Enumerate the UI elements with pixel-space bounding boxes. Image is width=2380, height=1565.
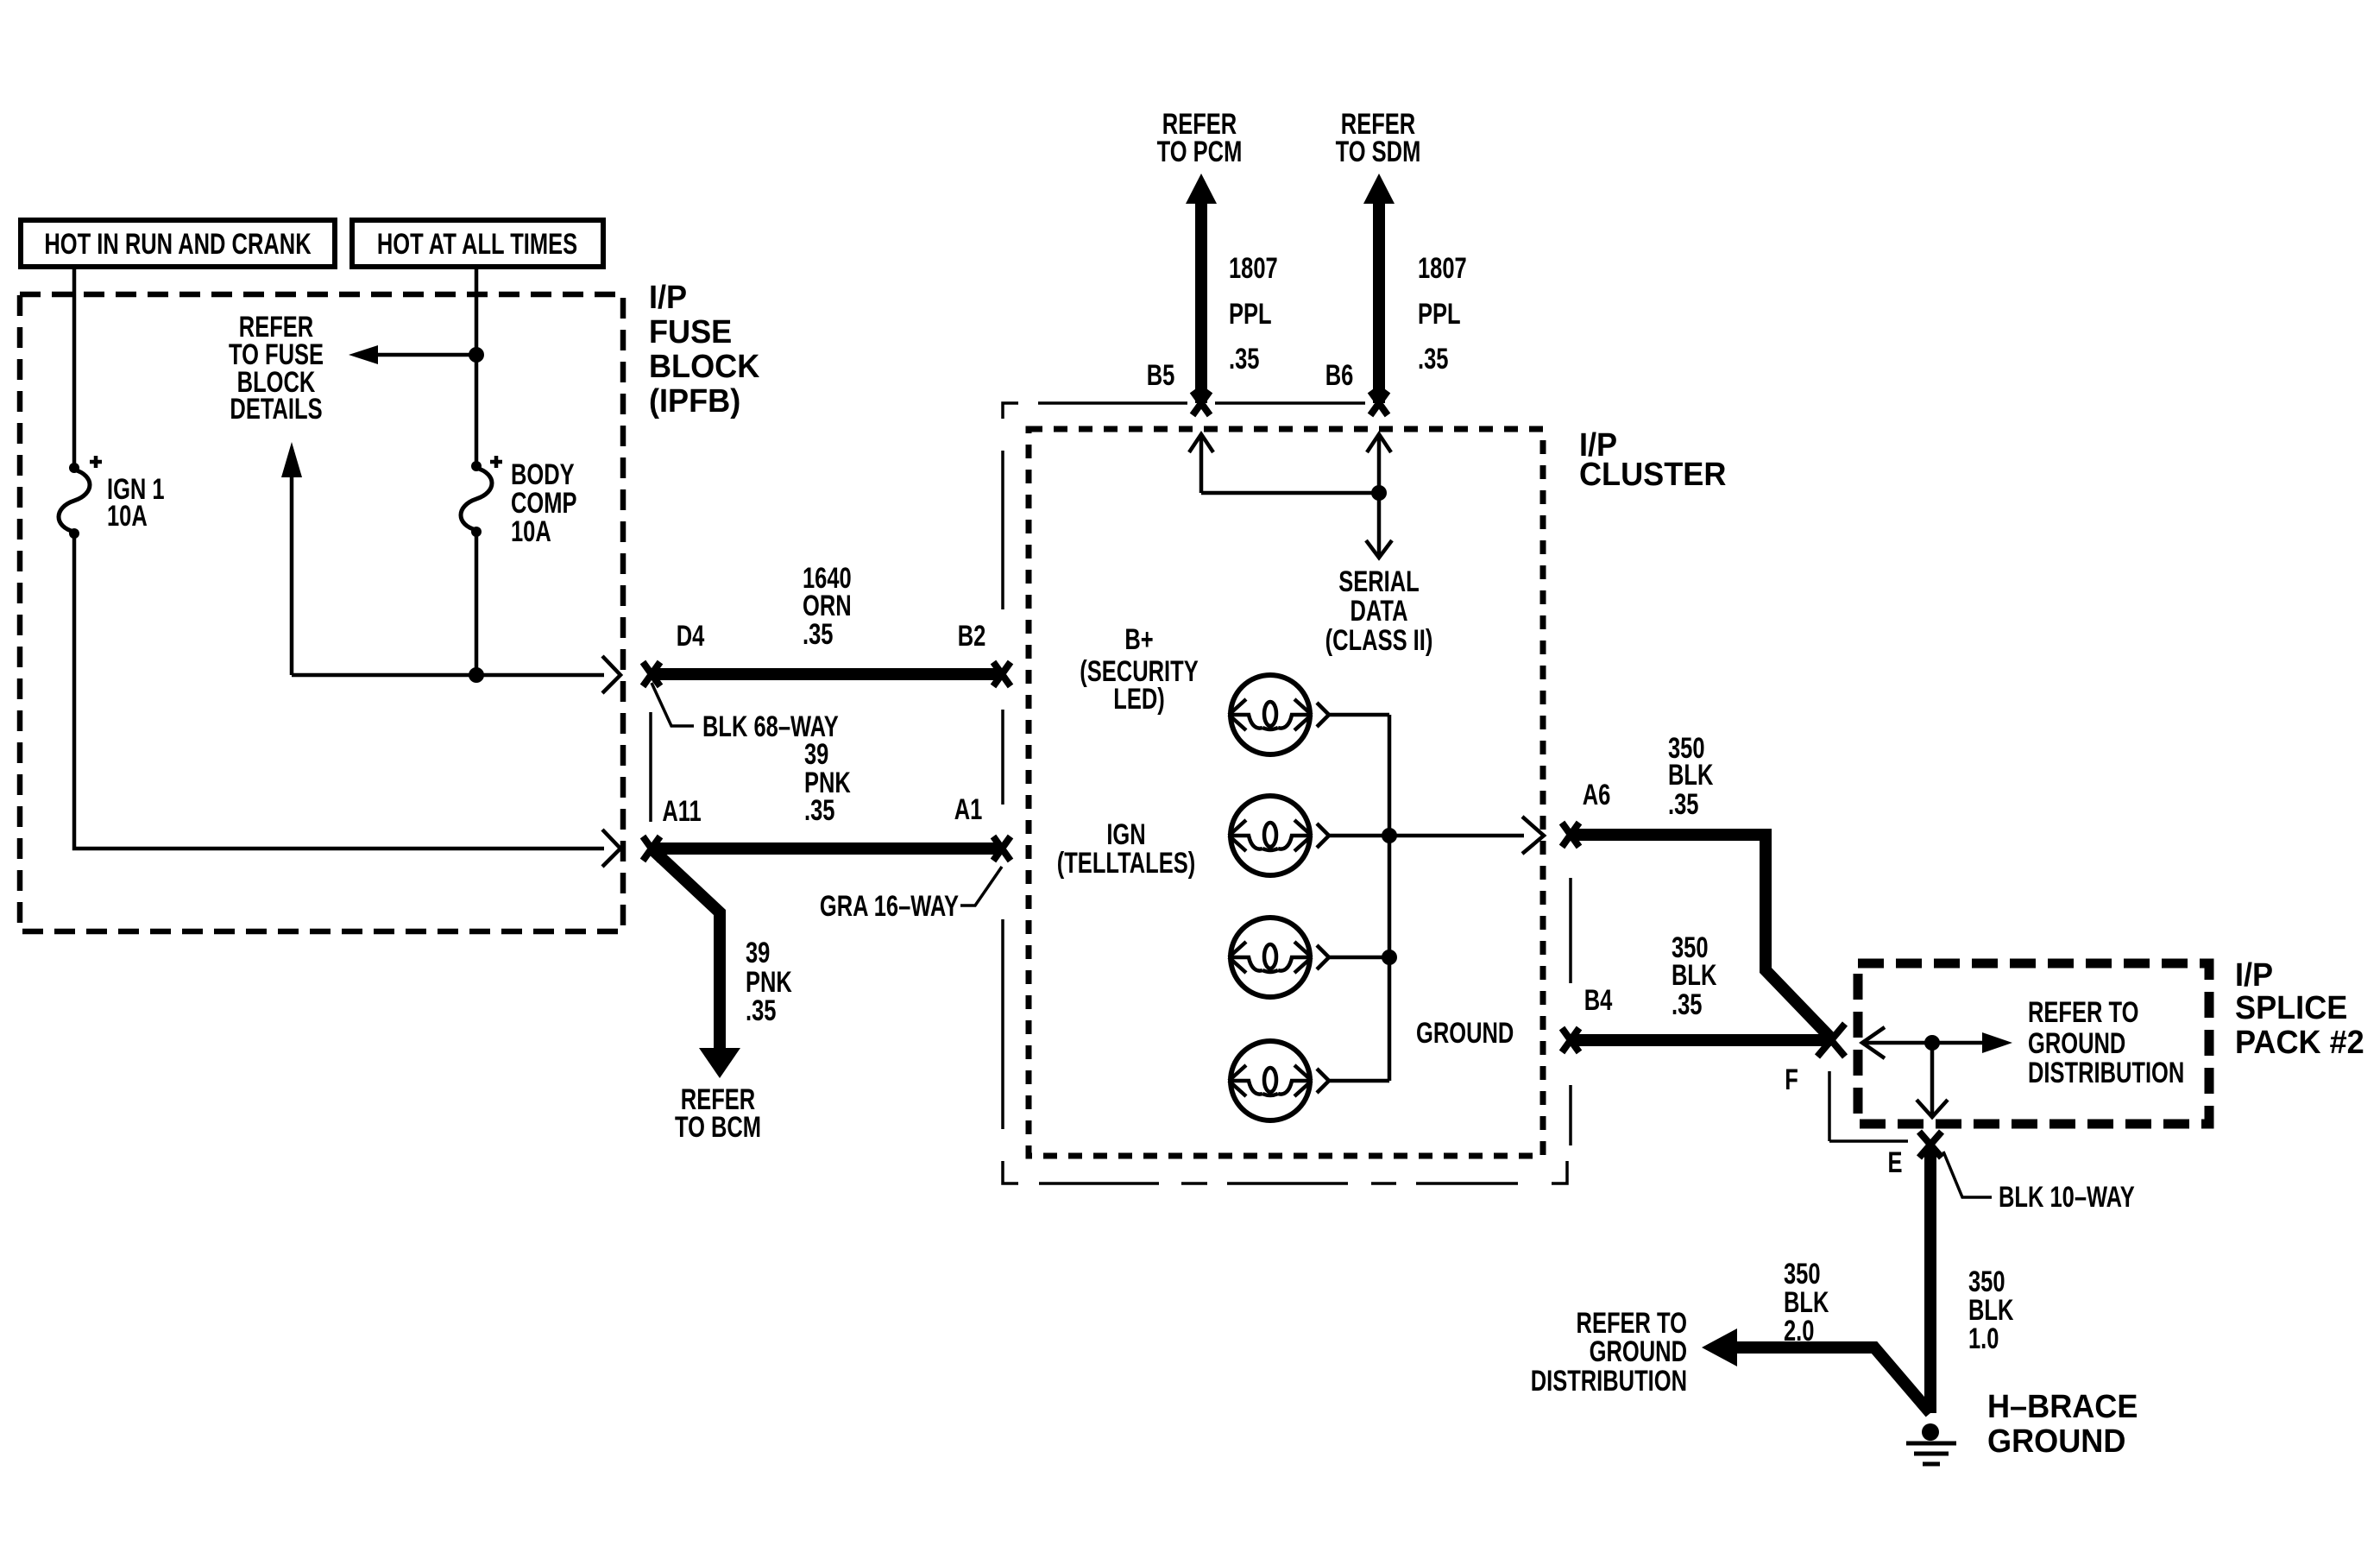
wire from fuse IGN 1 down and right to A11 (74, 533, 604, 849)
svg-text:I/P: I/P (2235, 956, 2273, 993)
svg-text:F: F (1785, 1064, 1798, 1096)
wire label 1807 PPL .35 (SDM) (1418, 253, 1467, 375)
svg-text:COMP: COMP (511, 488, 577, 520)
svg-text:GROUND: GROUND (1416, 1018, 1514, 1050)
hot in run and crank label box (21, 220, 335, 267)
connector terminal X at A1 (993, 836, 1011, 861)
svg-text:A6: A6 (1583, 779, 1611, 811)
wire label 350 BLK 1.0 (1968, 1266, 2014, 1355)
open arrow inside splice pack (1862, 1027, 1885, 1058)
splice down arrow to E (1917, 1043, 1948, 1117)
splice terminal X at E (1919, 1132, 1942, 1158)
svg-text:(IPFB): (IPFB) (649, 382, 740, 419)
svg-text:PPL: PPL (1229, 299, 1272, 331)
svg-text:PPL: PPL (1418, 299, 1461, 331)
svg-text:TO BCM: TO BCM (675, 1112, 761, 1144)
svg-text:39: 39 (746, 937, 770, 969)
REFER TO FUSE BLOCK DETAILS text (229, 312, 324, 426)
I/P fuse block title (649, 278, 760, 419)
svg-text:.35: .35 (804, 795, 834, 827)
I/P splice pack #2 dashed box (1858, 963, 2209, 1124)
bus junction node at lamp 2 (1382, 828, 1397, 843)
svg-text:ORN: ORN (803, 590, 852, 622)
connector terminal X at A11 (643, 836, 660, 861)
REFER TO GROUND DISTRIBUTION text (bottom) (1531, 1308, 1687, 1398)
node on wire to REFER TO FUSE BLOCK DETAILS (469, 347, 484, 363)
wire from HOT IN RUN AND CRANK box down to fuse IGN 1 (72, 267, 77, 466)
connector terminal X at B6 (1370, 391, 1388, 415)
splice terminal X at F (1817, 1024, 1845, 1057)
svg-text:TO PCM: TO PCM (1157, 136, 1243, 168)
svg-text:B2: B2 (958, 621, 986, 653)
splice pack outer connector outline (1829, 1071, 1908, 1141)
SERIAL DATA (CLASS II) text (1325, 566, 1433, 657)
svg-text:FUSE: FUSE (649, 312, 732, 350)
wire lamp 1 to bus (1329, 713, 1389, 717)
svg-text:B5: B5 (1147, 360, 1175, 392)
svg-text:1.0: 1.0 (1968, 1323, 1999, 1355)
serial data junction node (1371, 485, 1387, 501)
lamp ground bus wire (1388, 715, 1392, 1081)
wire 350 BLK .35 from A6 to splice (1571, 835, 1833, 1040)
serial data down arrow (1366, 493, 1392, 558)
I/P cluster outer connector outline (1003, 403, 1571, 1183)
wire lamp 2 to bus (1329, 834, 1389, 838)
svg-text:E: E (1887, 1147, 1902, 1179)
svg-text:SERIAL: SERIAL (1338, 566, 1419, 598)
fuse IGN 1 10A (59, 456, 165, 539)
lamp 2 terminal chevron (1317, 824, 1329, 848)
svg-text:350: 350 (1784, 1259, 1821, 1290)
wire label 39 PNK .35 (804, 739, 851, 827)
svg-text:GRA 16–WAY: GRA 16–WAY (820, 891, 959, 923)
wire 39 PNK .35 from A11 to A1 (652, 842, 1002, 855)
svg-text:REFER TO: REFER TO (1577, 1308, 1687, 1340)
svg-text:.35: .35 (1229, 344, 1259, 375)
H-brace ground symbol (1906, 1423, 1956, 1464)
telltale lamp 1 (1229, 675, 1312, 754)
svg-text:1807: 1807 (1418, 253, 1467, 285)
pointer to BLK 68-WAY label (652, 683, 694, 726)
svg-text:A1: A1 (954, 794, 983, 826)
arrow to REFER TO FUSE BLOCK DETAILS (349, 345, 476, 364)
svg-text:(CLASS II): (CLASS II) (1325, 625, 1433, 657)
IGN (TELLTALES) text (1057, 819, 1196, 880)
wire label 1640 ORN .35 (803, 563, 852, 651)
H-BRACE GROUND title (1987, 1387, 2138, 1459)
REFER TO SDM text (1336, 109, 1421, 168)
lamp 3 terminal chevron (1317, 945, 1329, 969)
I/P cluster dashed box (1029, 429, 1543, 1156)
I/P splice pack #2 title (2235, 956, 2364, 1060)
svg-text:H–BRACE: H–BRACE (1987, 1387, 2138, 1424)
splice junction node (1924, 1035, 1940, 1051)
svg-text:HOT IN RUN AND CRANK: HOT IN RUN AND CRANK (44, 229, 311, 261)
pointer to BLK 10-WAY label (1943, 1152, 1992, 1197)
svg-text:BODY: BODY (511, 459, 575, 491)
svg-text:10A: 10A (511, 516, 551, 548)
svg-text:GROUND: GROUND (1590, 1336, 1687, 1368)
connector terminal X at D4 (643, 662, 660, 686)
svg-text:I/P: I/P (649, 278, 687, 315)
serial data bus wire (1201, 491, 1379, 495)
wire label 350 BLK 2.0 (1784, 1259, 1829, 1347)
svg-text:BLK 10–WAY: BLK 10–WAY (1999, 1182, 2135, 1214)
splice bus wire (1862, 1041, 1982, 1045)
svg-text:BLK: BLK (1668, 760, 1714, 792)
wire 1807 PPL .35 up arrow to PCM (1186, 174, 1217, 403)
arrow to ground distribution (bottom left) (1702, 1328, 1737, 1366)
hot at all times label box (352, 220, 603, 267)
wire lamp 4 to bus (1329, 1079, 1389, 1083)
junction node at D4 feed (469, 667, 484, 683)
wire 1807 PPL .35 up arrow to SDM (1363, 174, 1395, 403)
svg-text:PACK #2: PACK #2 (2235, 1023, 2364, 1060)
REFER TO GROUND DISTRIBUTION text (splice) (2028, 997, 2184, 1089)
svg-text:1807: 1807 (1229, 253, 1278, 285)
svg-text:B4: B4 (1584, 985, 1613, 1017)
svg-text:IGN: IGN (1106, 819, 1145, 851)
open arrow into D4 at fuse block edge (602, 656, 620, 693)
connector terminal X at A6 (1562, 823, 1579, 847)
I/P cluster title (1579, 426, 1726, 492)
svg-text:LED): LED) (1113, 684, 1164, 716)
svg-text:CLUSTER: CLUSTER (1579, 455, 1726, 492)
B+ (SECURITY LED) text (1080, 624, 1198, 716)
svg-text:350: 350 (1968, 1266, 2005, 1298)
serial data up arrow to B5 (1189, 434, 1213, 493)
svg-text:GROUND: GROUND (1987, 1422, 2125, 1459)
lamp 4 terminal chevron (1317, 1069, 1329, 1093)
svg-text:.35: .35 (1672, 989, 1702, 1021)
svg-text:B+: B+ (1124, 624, 1153, 656)
svg-text:PNK: PNK (746, 967, 792, 999)
wire label 350 BLK .35 (B4) (1672, 932, 1717, 1021)
telltale lamp 3 (1229, 918, 1312, 997)
svg-text:GROUND: GROUND (2028, 1028, 2125, 1060)
svg-text:DATA: DATA (1350, 596, 1407, 628)
wire label 350 BLK .35 (A6) (1668, 733, 1714, 821)
connector terminal X at B2 (993, 662, 1011, 686)
wire bus to A6 (1389, 834, 1524, 838)
svg-text:TO SDM: TO SDM (1336, 136, 1421, 168)
svg-text:REFER TO: REFER TO (2028, 997, 2138, 1029)
svg-text:39: 39 (804, 739, 828, 771)
svg-text:DETAILS: DETAILS (230, 394, 322, 426)
wire lamp 3 to bus (1329, 956, 1389, 960)
I/P fuse block (IPFB) dashed box (20, 294, 623, 931)
svg-text:DISTRIBUTION: DISTRIBUTION (1531, 1366, 1687, 1398)
wire label 1807 PPL .35 (PCM) (1229, 253, 1278, 375)
bus junction node at lamp 3 (1382, 950, 1397, 965)
svg-text:BLK: BLK (1968, 1295, 2014, 1327)
svg-text:D4: D4 (677, 621, 705, 653)
svg-text:HOT AT ALL TIMES: HOT AT ALL TIMES (377, 229, 577, 261)
wire 1640 ORN .35 from D4 to B2 (652, 668, 1002, 680)
svg-text:10A: 10A (107, 501, 148, 533)
arrow to REFER TO BCM (699, 1048, 740, 1078)
pointer to GRA 16-WAY label (960, 867, 1002, 906)
wire 350 BLK 2.0 to ground distribution (1735, 1347, 1930, 1413)
wire junction to D4 (292, 673, 604, 678)
svg-text:(TELLTALES): (TELLTALES) (1057, 848, 1196, 880)
REFER TO PCM text (1157, 109, 1243, 168)
wire 350 BLK 1.0 from splice E down (1924, 1146, 1936, 1413)
svg-text:BLK: BLK (1784, 1287, 1829, 1319)
wire from fuse BODY COMP down to junction (475, 532, 479, 675)
svg-text:.35: .35 (746, 995, 776, 1027)
wire label 39 PNK .35 (BCM branch) (746, 937, 792, 1027)
svg-text:A11: A11 (662, 796, 701, 828)
wire 350 BLK .35 from B4 to splice (1571, 1034, 1831, 1046)
open arrow into A6 at cluster edge (1522, 817, 1544, 854)
svg-text:B6: B6 (1325, 360, 1354, 392)
svg-text:BLOCK: BLOCK (649, 347, 760, 384)
wire from HOT AT ALL TIMES box down to fuse BODY COMP (475, 267, 479, 465)
connector terminal X at B4 (1562, 1028, 1579, 1052)
connector terminal X at B5 (1193, 391, 1210, 415)
serial data up arrow to B6 (1367, 434, 1391, 493)
telltale lamp 4 (1229, 1041, 1312, 1120)
up arrow to REFER TO FUSE BLOCK DETAILS (281, 442, 302, 675)
connector line BLK 68-WAY at fuse block (649, 712, 652, 822)
arrow to ground distribution (right) (1982, 1032, 2012, 1053)
svg-text:.35: .35 (803, 619, 833, 651)
svg-text:DISTRIBUTION: DISTRIBUTION (2028, 1057, 2184, 1089)
svg-text:.35: .35 (1418, 344, 1448, 375)
svg-text:BLK: BLK (1672, 960, 1717, 992)
svg-text:.35: .35 (1668, 789, 1698, 821)
wire 39 PNK .35 branch down to BCM (653, 850, 720, 1050)
REFER TO BCM text (675, 1084, 761, 1144)
lamp 1 terminal chevron (1317, 703, 1329, 727)
telltale lamp 2 (1229, 796, 1312, 875)
svg-text:SPLICE: SPLICE (2235, 988, 2347, 1025)
open arrow into A11 at fuse block edge (602, 830, 620, 867)
fuse BODY COMP 10A (461, 456, 577, 548)
